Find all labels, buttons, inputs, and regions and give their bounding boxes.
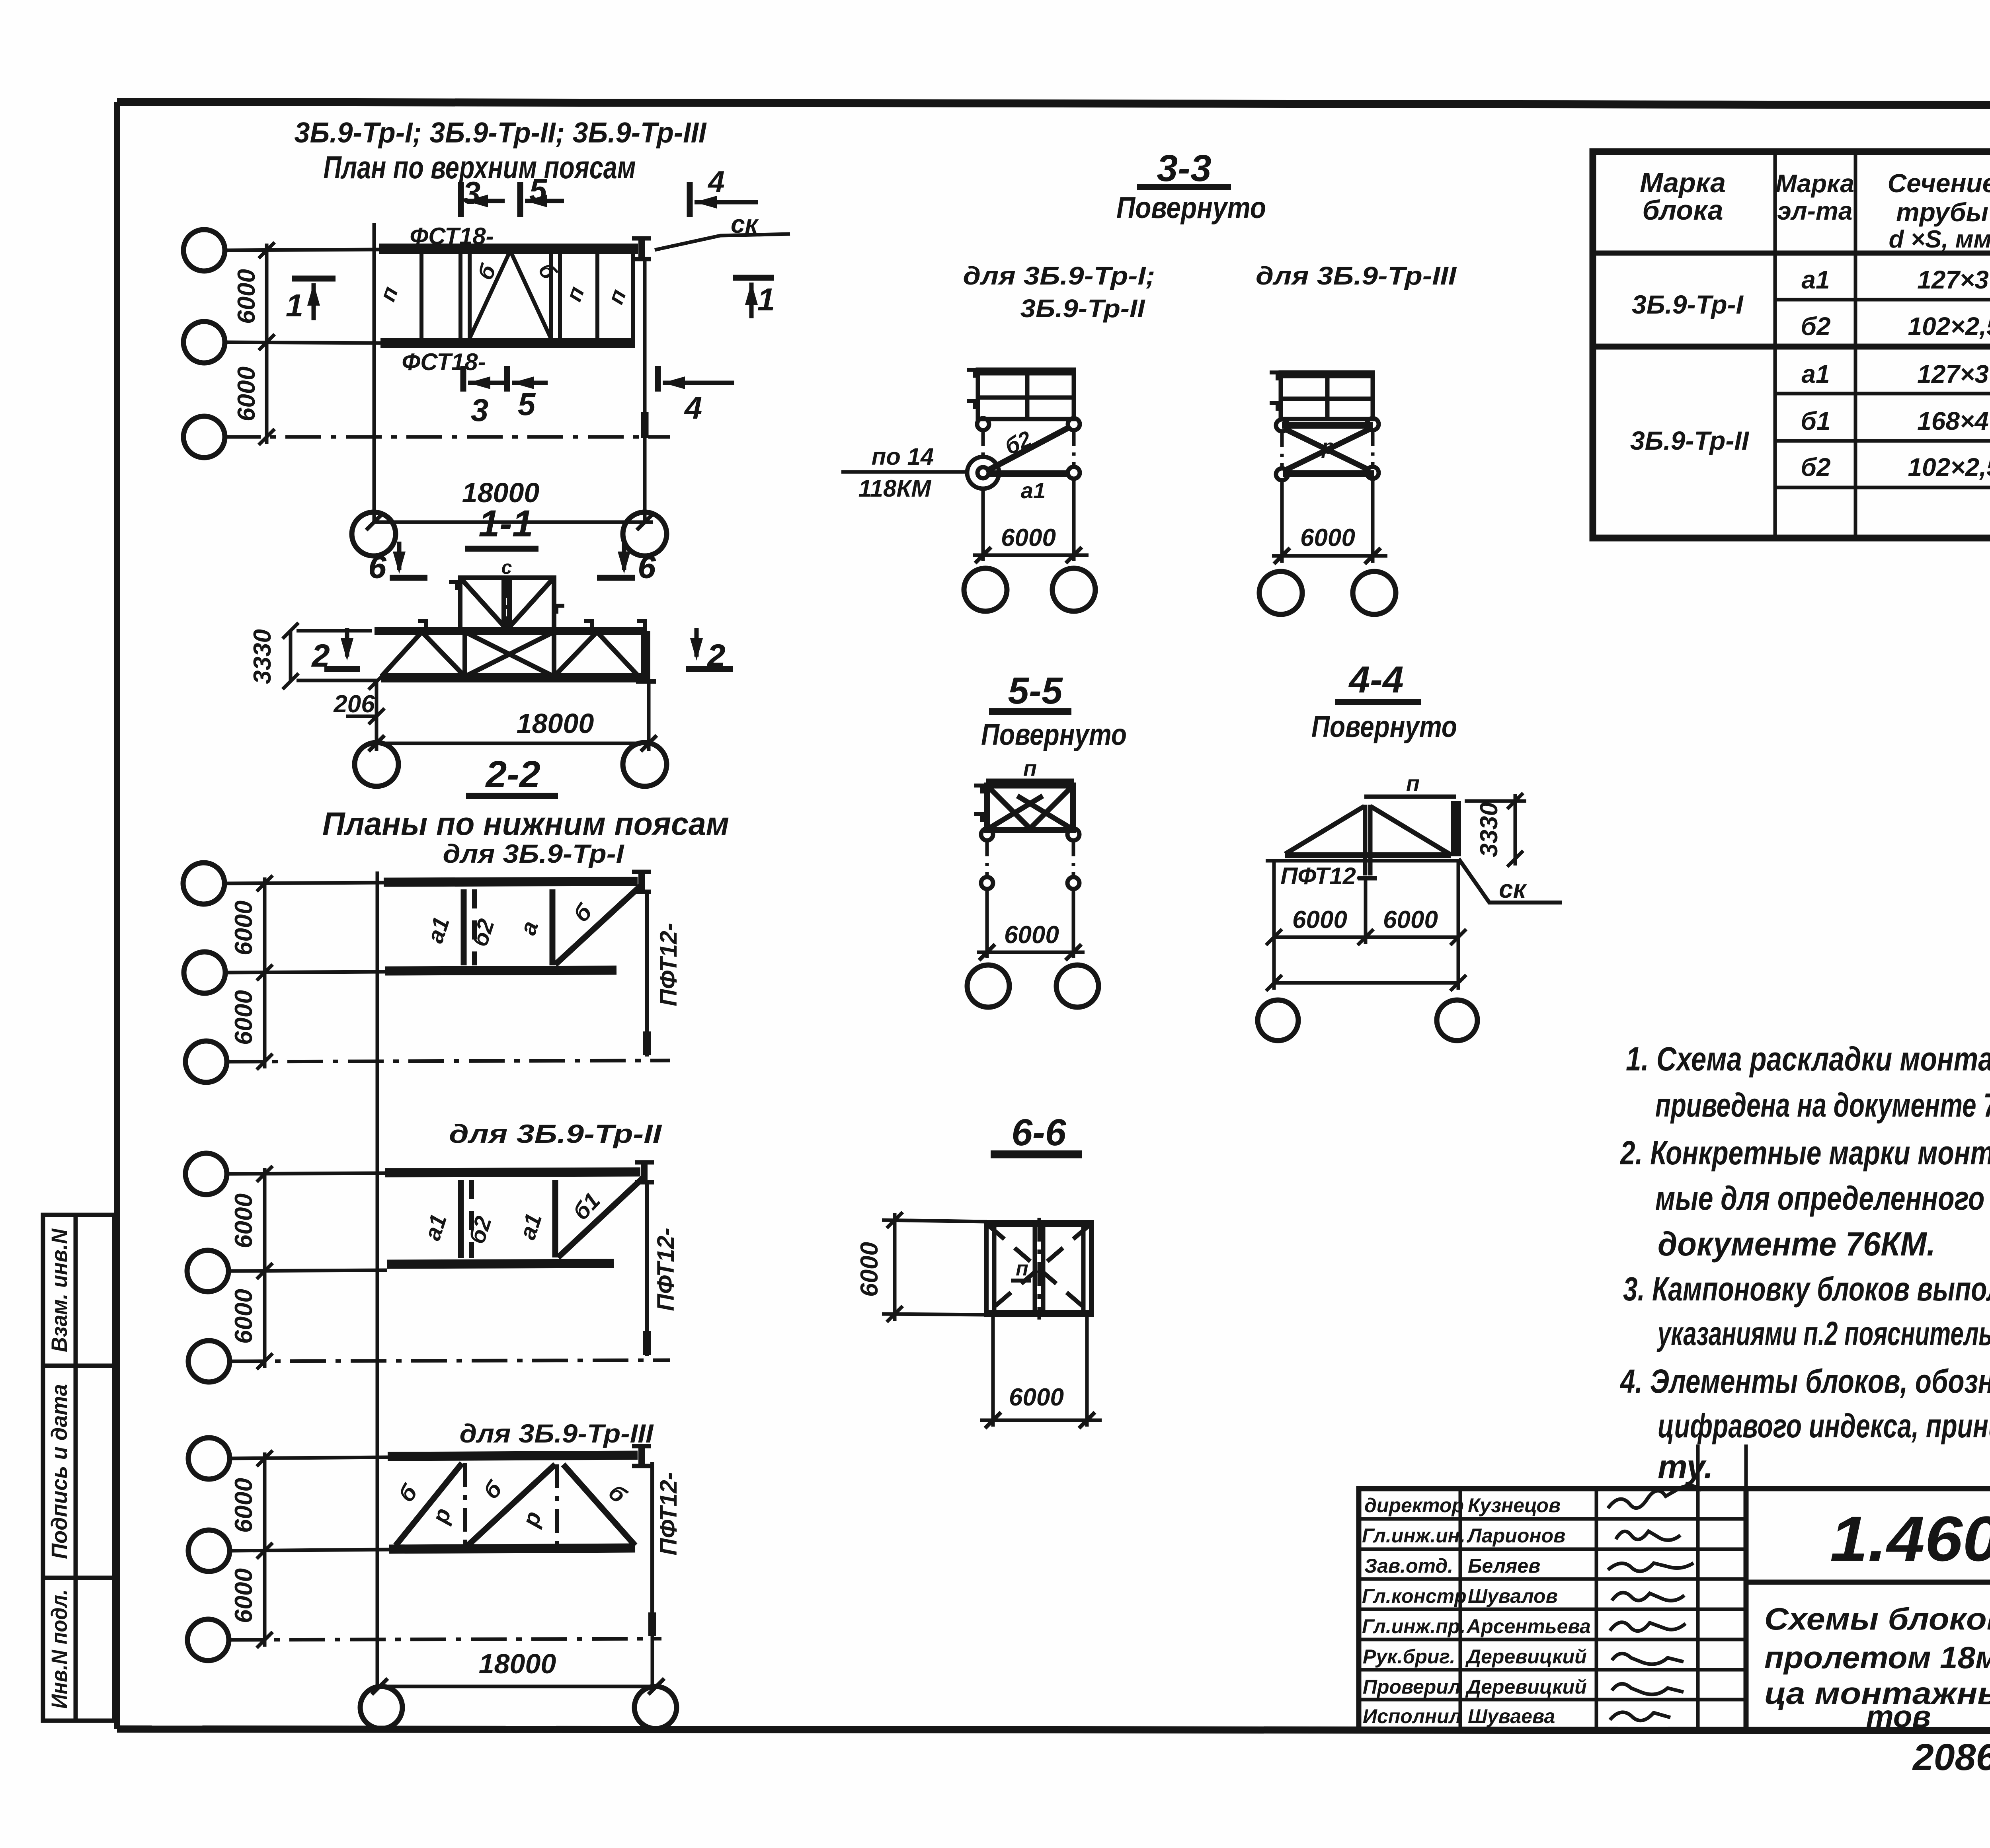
plan bottom circle right [623, 512, 667, 556]
section mark 5 top [520, 182, 564, 217]
svg-text:6000: 6000 [856, 1242, 883, 1297]
svg-text:Ларионов: Ларионов [1467, 1524, 1565, 1547]
section mark 1 left [292, 279, 336, 320]
svg-text:Зав.отд.: Зав.отд. [1364, 1555, 1453, 1577]
circles [1258, 1000, 1298, 1041]
svg-text:6000: 6000 [230, 1568, 258, 1623]
plan II top chord ФСТ18 [385, 1172, 640, 1173]
svg-text:п: п [1023, 756, 1037, 781]
svg-text:2-2: 2-2 [485, 753, 540, 795]
plan III axis circle C [187, 1619, 229, 1661]
svg-text:20861: 20861 [1912, 1736, 1990, 1778]
plan II member а1 second [552, 1180, 558, 1257]
svg-text:ту.: ту. [1658, 1448, 1713, 1485]
svg-text:6000: 6000 [230, 990, 258, 1045]
plan II axis line B [228, 1270, 387, 1271]
plan II diagonal б1 [558, 1176, 645, 1257]
svg-text:102×2,5: 102×2,5 [1908, 312, 1990, 341]
main truss bottom chord [381, 673, 647, 682]
axis line B [225, 342, 380, 343]
svg-text:для 3Б.9-Тр-I;: для 3Б.9-Тр-I; [963, 261, 1155, 290]
section mark 3 top [461, 182, 505, 217]
svg-text:приведена на документе 75КМ.: приведена на документе 75КМ. [1655, 1086, 1990, 1124]
svg-text:эл-та: эл-та [1777, 197, 1853, 225]
svg-text:Подпись и дата: Подпись и дата [47, 1384, 72, 1559]
plan II dim chain 6000 [257, 1166, 273, 1369]
truss verticals [421, 252, 633, 340]
svg-text:1: 1 [286, 288, 304, 323]
svg-text:6000: 6000 [233, 366, 260, 421]
plan II right end vertical [645, 1184, 649, 1356]
svg-text:Деревицкий: Деревицкий [1465, 1645, 1587, 1668]
svg-text:ПФТ12-: ПФТ12- [1280, 863, 1364, 889]
svg-text:по 14: по 14 [872, 443, 934, 470]
svg-text:а1: а1 [1021, 478, 1046, 503]
plan III chord end I-symbol [632, 1445, 651, 1467]
plan II axis circle C [188, 1341, 230, 1382]
svg-text:6: 6 [638, 549, 656, 585]
truss triangle [1285, 801, 1459, 878]
svg-text:а1: а1 [1801, 360, 1830, 388]
right figure grid rect [1270, 372, 1373, 419]
svg-text:Деревицкий: Деревицкий [1465, 1676, 1587, 1698]
svg-text:б2: б2 [1801, 312, 1830, 341]
plan III top chord [388, 1455, 638, 1456]
circle right [623, 743, 667, 786]
plan III post р 1 dash-dot [463, 1463, 467, 1546]
legs down [991, 1315, 995, 1427]
svg-text:3Б.9-Тр-I; 3Б.9-Тр-II; 3Б.9-Тр: 3Б.9-Тр-I; 3Б.9-Тр-II; 3Б.9-Тр-III [295, 117, 707, 149]
right end vertical [643, 260, 647, 522]
top chord [379, 244, 638, 254]
svg-text:6000: 6000 [1292, 906, 1347, 934]
svg-text:Планы по нижним поясам: Планы по нижним поясам [322, 806, 729, 842]
svg-text:Рук.бриг.: Рук.бриг. [1363, 1645, 1455, 1668]
svg-text:Гл.констр: Гл.констр [1362, 1585, 1467, 1607]
diagonal b [555, 884, 642, 965]
bottom chord [380, 338, 635, 348]
bottom axis circle left [360, 1686, 402, 1729]
section mark 5 bottom [507, 366, 548, 392]
svg-text:Гл.инж.пр.: Гл.инж.пр. [1362, 1615, 1465, 1637]
svg-text:6000: 6000 [1383, 906, 1438, 934]
svg-text:6000: 6000 [230, 1193, 258, 1248]
circles [964, 568, 1007, 611]
section mark 4 bottom [658, 366, 734, 392]
svg-text:Повернуто: Повернуто [1116, 191, 1266, 225]
svg-text:для 3Б.9-Тр-III: для 3Б.9-Тр-III [1256, 261, 1457, 290]
callout circle [967, 457, 999, 489]
svg-text:директор: директор [1364, 1494, 1464, 1517]
svg-text:Взам. инв.N: Взам. инв.N [47, 1228, 72, 1352]
svg-text:б2: б2 [1801, 453, 1830, 481]
mark 2 left [311, 628, 360, 673]
svg-text:127×3: 127×3 [1917, 265, 1989, 294]
svg-text:3-3: 3-3 [1157, 147, 1211, 189]
svg-text:ПФТ12-: ПФТ12- [652, 1228, 679, 1311]
dim 18000 [374, 520, 653, 524]
plan III axis line B [230, 1550, 389, 1551]
panel rect with bracing [974, 786, 1073, 830]
signature rows [1362, 1494, 1591, 1727]
left dim [882, 1212, 987, 1322]
svg-text:118КМ: 118КМ [858, 475, 932, 502]
left margin stamp column [43, 1215, 114, 1721]
svg-text:3Б.9-Тр-II: 3Б.9-Тр-II [1020, 294, 1145, 323]
svg-text:6000: 6000 [1009, 1384, 1064, 1411]
svg-text:6000: 6000 [230, 1478, 258, 1533]
svg-text:для 3Б.9-Тр-III: для 3Б.9-Тр-III [460, 1419, 654, 1448]
diagonal b2 [987, 427, 1071, 471]
roof block on top [460, 578, 554, 630]
axis lines [224, 883, 384, 883]
truss web [381, 631, 656, 681]
svg-text:3Б.9-Тр-I: 3Б.9-Тр-I [1632, 290, 1744, 319]
mark 2 right [686, 628, 733, 673]
axis circle A [183, 230, 225, 271]
mark 6 right [597, 542, 656, 585]
truss diagonals [470, 251, 551, 338]
axis line [1266, 859, 1461, 863]
main title block frame [1746, 1489, 1990, 1730]
svg-text:3Б.9-Тр-II: 3Б.9-Тр-II [1630, 426, 1750, 455]
plan III axis circle A [188, 1438, 230, 1479]
svg-text:с: с [501, 557, 512, 578]
dim 3330 [283, 623, 378, 689]
svg-text:Исполнил: Исполнил [1363, 1705, 1461, 1727]
signatures squiggles [1608, 1486, 1701, 1721]
block square [986, 1222, 1091, 1315]
svg-text:102×2,5: 102×2,5 [1908, 453, 1990, 481]
svg-text:3. Кампоновку блоков выполнять: 3. Кампоновку блоков выполнять в соответ… [1623, 1270, 1990, 1308]
top chord [384, 881, 638, 882]
plan II axis circle B [187, 1250, 228, 1292]
dim 3330 [1465, 793, 1526, 867]
svg-text:5: 5 [529, 172, 548, 208]
ск leader [1459, 859, 1562, 903]
member a1 [987, 470, 1070, 477]
svg-text:Проверил: Проверил [1363, 1676, 1461, 1698]
circle left [355, 743, 398, 786]
main truss top chord [375, 627, 647, 635]
member a [550, 889, 556, 965]
svg-text:4: 4 [707, 165, 725, 198]
svg-text:6000: 6000 [1300, 524, 1355, 552]
svg-text:206: 206 [333, 690, 375, 718]
section mark 4 top right [690, 182, 758, 217]
plan III diagonal б 2 [468, 1464, 555, 1546]
hook marks [418, 582, 645, 629]
dim 18000 [377, 742, 649, 745]
svg-text:ПФТ12-: ПФТ12- [655, 923, 682, 1006]
dashed X [989, 1226, 1089, 1312]
circles [1259, 571, 1302, 614]
plan III dim chain 6000 [257, 1450, 273, 1648]
svg-text:5: 5 [518, 386, 536, 422]
plan III post р 2 dash-dot [555, 1464, 559, 1546]
svg-text:Марка: Марка [1775, 169, 1854, 198]
svg-text:2. Конкретные марки монтажных: 2. Конкретные марки монтажных блоков, пр… [1619, 1134, 1990, 1172]
svg-text:Гл.инж.ин.: Гл.инж.ин. [1362, 1524, 1465, 1547]
svg-text:б1: б1 [1801, 407, 1830, 435]
chord end I-symbol [632, 238, 651, 260]
svg-text:Повернуто: Повернуто [981, 718, 1127, 752]
svg-text:3: 3 [463, 175, 481, 211]
table verticals [1775, 152, 1990, 538]
callout по 14 / 118КМ [841, 470, 968, 474]
plan II member а1 [458, 1180, 464, 1258]
svg-text:4. Элементы блоков, обозначенн: 4. Элементы блоков, обозначенные буквами… [1619, 1363, 1990, 1400]
svg-text:трубы: трубы [1896, 197, 1988, 227]
svg-text:168×4: 168×4 [1917, 407, 1989, 435]
legs [1280, 480, 1284, 563]
svg-text:Повернуто: Повернуто [1311, 710, 1457, 744]
long grid vertical [376, 871, 379, 1687]
plan III diagonal б 3 [563, 1464, 635, 1546]
member a1 [461, 889, 467, 965]
svg-text:18000: 18000 [479, 1648, 556, 1679]
signature table grid [1359, 1444, 1746, 1730]
bottom axis circle right [634, 1686, 677, 1729]
svg-text:1.460.3-19-114КМ: 1.460.3-19-114КМ [1830, 1503, 1990, 1574]
plan III bottom chord [389, 1548, 635, 1549]
vertical dim chain [257, 875, 273, 1070]
svg-text:для 3Б.9-Тр-II: для 3Б.9-Тр-II [449, 1119, 662, 1148]
mark 6 left [369, 542, 427, 585]
svg-text:Сечение: Сечение [1888, 168, 1990, 198]
circles [967, 965, 1009, 1007]
svg-text:п: п [1406, 771, 1420, 796]
plan III diagonal б 1 [396, 1463, 462, 1546]
dashdot links [981, 430, 985, 458]
plan II axis line A [227, 1173, 385, 1174]
svg-text:1. Схема раскладки монтажных б: 1. Схема раскладки монтажных блоков покр… [1626, 1040, 1990, 1078]
dashdot edges [1280, 431, 1284, 468]
top bar [1282, 422, 1373, 429]
svg-text:6000: 6000 [1001, 524, 1056, 552]
legs down [981, 489, 985, 561]
svg-text:тов: тов [1866, 1699, 1931, 1734]
svg-text:Шувалов: Шувалов [1468, 1585, 1558, 1607]
svg-text:6000: 6000 [233, 269, 260, 324]
svg-text:а1: а1 [1801, 265, 1830, 294]
svg-text:п: п [1016, 1257, 1028, 1280]
bottom chord [385, 970, 617, 971]
axis circle B [183, 322, 225, 363]
plan III axis line C dash-dot [229, 1639, 661, 1640]
svg-text:Инв.N подл.: Инв.N подл. [47, 1589, 72, 1709]
svg-text:Шуваева: Шуваева [1468, 1705, 1555, 1727]
svg-text:6000: 6000 [1004, 921, 1059, 949]
svg-text:р: р [1321, 435, 1334, 458]
svg-text:3: 3 [471, 392, 489, 428]
axis line A [225, 250, 379, 250]
svg-text:ск: ск [1499, 875, 1528, 903]
member b2 dashed [472, 889, 477, 965]
svg-text:цифравого индекса, принимать п: цифравого индекса, принимать по конкретн… [1658, 1407, 1990, 1444]
svg-text:мые для определенного выпуска,: мые для определенного выпуска, приведены… [1655, 1179, 1990, 1217]
right end vertical [645, 893, 649, 1057]
svg-text:4-4: 4-4 [1348, 659, 1403, 701]
svg-text:6-6: 6-6 [1011, 1111, 1066, 1154]
plan II axis line C dash-dot [230, 1360, 670, 1361]
table horizontals [1593, 201, 1990, 487]
plan bottom circle left [352, 512, 396, 556]
plan II chord end I-symbol [635, 1162, 654, 1183]
joints [977, 418, 989, 430]
plan II member б2 dashed [469, 1180, 474, 1258]
left figure grid rect [967, 370, 1074, 419]
svg-text:документе 76КМ.: документе 76КМ. [1658, 1225, 1935, 1263]
svg-text:6: 6 [369, 549, 386, 585]
svg-text:18000: 18000 [517, 708, 594, 739]
svg-text:для 3Б.9-Тр-I: для 3Б.9-Тр-I [443, 839, 625, 868]
svg-text:1: 1 [757, 282, 775, 317]
bottom bar [1283, 470, 1374, 477]
svg-text:3330: 3330 [1475, 802, 1503, 857]
svg-text:ФСТ18-: ФСТ18- [402, 349, 486, 375]
plan III right end vertical [650, 1462, 654, 1636]
svg-text:d ×S, мм: d ×S, мм [1889, 226, 1990, 253]
plan II axis circle A [185, 1153, 227, 1195]
svg-text:пролетом 18м и табли-: пролетом 18м и табли- [1764, 1640, 1990, 1675]
svg-text:указаниями п.2 пояснительной з: указаниями п.2 пояснительной записки. [1656, 1315, 1990, 1352]
svg-text:Арсентьева: Арсентьева [1466, 1615, 1591, 1637]
svg-text:Кузнецов: Кузнецов [1468, 1494, 1561, 1517]
table outer border [1593, 152, 1990, 538]
svg-text:Беляев: Беляев [1468, 1555, 1540, 1577]
svg-text:Марка: Марка [1640, 167, 1726, 198]
svg-text:6000: 6000 [230, 901, 258, 955]
axis line C dash-dot [225, 435, 670, 439]
joints [981, 828, 993, 840]
svg-text:4: 4 [684, 390, 702, 425]
X bracing [1285, 429, 1370, 470]
svg-text:3330: 3330 [249, 629, 276, 684]
svg-text:1-1: 1-1 [478, 503, 533, 545]
axis circles [183, 863, 224, 904]
svg-text:блока: блока [1642, 195, 1723, 226]
svg-text:127×3: 127×3 [1917, 360, 1989, 388]
section mark 3 bottom [463, 366, 504, 392]
plan III axis circle B [188, 1530, 230, 1571]
section mark 1 right [733, 278, 774, 318]
svg-text:5-5: 5-5 [1008, 670, 1063, 712]
svg-text:Схемы блоков 3Б.9-Тр: Схемы блоков 3Б.9-Тр [1764, 1601, 1990, 1636]
svg-text:ПФТ12-: ПФТ12- [655, 1472, 682, 1556]
plan II bottom chord [387, 1263, 614, 1264]
axis circle C [183, 416, 225, 458]
svg-text:6000: 6000 [230, 1289, 258, 1344]
plan III axis line A [230, 1457, 388, 1458]
grid vertical line [373, 223, 376, 522]
vertical dim chain 6000/6000 [259, 242, 275, 445]
